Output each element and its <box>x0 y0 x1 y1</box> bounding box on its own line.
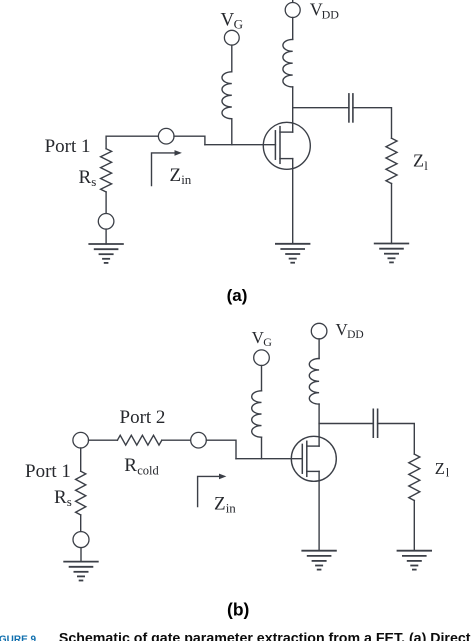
svg-text:Z: Z <box>214 494 226 515</box>
stub above VDD (a) <box>292 0 294 2</box>
terminal circle VG (a) <box>224 30 239 45</box>
figure caption <box>0 631 474 641</box>
ground under source (b) <box>302 551 336 570</box>
label Zl (b) <box>435 459 450 480</box>
source wire to ground (b) <box>318 471 320 550</box>
wire drain node to capacitor (b) <box>319 423 373 425</box>
wire circle to ground (a) <box>105 229 107 244</box>
svg-text:R: R <box>124 455 137 476</box>
label Zl (a) <box>413 151 428 174</box>
wire VG circle to inductor (a) <box>231 45 233 72</box>
terminal circle VG (b) <box>254 350 270 366</box>
svg-text:Port 2: Port 2 <box>120 407 166 428</box>
label VG (a) <box>221 9 243 31</box>
Zin arrow (b) <box>198 476 220 506</box>
node circle port2 (b) <box>191 432 207 448</box>
node circle port1 (b) <box>73 432 89 448</box>
label Port 1 (b) <box>25 461 71 482</box>
wire Rs to terminal circle (a) <box>105 192 107 214</box>
label Rcold (b) <box>124 455 159 478</box>
label VDD (a) <box>310 0 340 21</box>
svg-text:s: s <box>67 494 72 509</box>
svg-text:R: R <box>79 167 92 188</box>
wire node to Rcold (b) <box>89 439 118 441</box>
capacitor C1 (b) <box>373 409 377 437</box>
terminal circle port1 bottom (b) <box>73 532 89 548</box>
svg-text:l: l <box>424 158 428 173</box>
capacitor C1 (a) <box>349 94 353 122</box>
svg-text:Z: Z <box>435 459 445 478</box>
ground under Zl (b) <box>398 551 432 570</box>
label VDD (b) <box>336 320 364 341</box>
wire capacitor to Zl corner (a) <box>353 108 392 139</box>
ground under source (a) <box>276 244 310 263</box>
svg-text:Port 1: Port 1 <box>25 461 71 482</box>
terminal circle port1 bottom (a) <box>98 214 114 230</box>
wire node to Rs (b) <box>80 448 82 471</box>
Zin arrow (a) <box>152 153 176 186</box>
resistor Zl (b) <box>409 454 420 500</box>
transistor M1 channel bar (a) <box>279 127 281 164</box>
label Zin (a) <box>170 165 192 187</box>
svg-text:G: G <box>263 335 272 349</box>
label VG (b) <box>252 328 273 349</box>
svg-text:R: R <box>54 487 67 508</box>
svg-text:s: s <box>91 174 96 189</box>
wire Rcold to node 2 (b) <box>162 439 191 441</box>
wire node2 to jog (b) <box>206 440 236 459</box>
gate wire (b) <box>236 458 302 460</box>
label Rs (b) <box>54 487 72 509</box>
node circle port 1 (a) <box>158 128 174 144</box>
resistor Zl (a) <box>386 138 397 183</box>
inductor LG (b) <box>252 391 262 437</box>
transistor M1 circle (b) <box>291 436 336 481</box>
label Port 1 (a) <box>45 136 91 157</box>
wire LG to gate line (b) <box>261 437 263 459</box>
resistor Rs (a) <box>101 149 112 192</box>
transistor M1 gate bar (b) <box>301 444 303 473</box>
wire Zl to ground (a) <box>391 184 393 244</box>
ground under Rs (a) <box>89 244 123 263</box>
wire Zl to ground (b) <box>413 501 415 551</box>
svg-text:Z: Z <box>170 165 182 186</box>
wire circle to ground (b) <box>80 548 82 562</box>
source wire to ground (a) <box>292 159 294 244</box>
wire VDD circle to inductor (b) <box>318 339 320 359</box>
label (b) <box>227 599 249 619</box>
svg-text:Schematic of gate parameter ex: Schematic of gate parameter extraction f… <box>59 631 474 641</box>
resistor Rcold (b) <box>117 435 161 445</box>
svg-text:DD: DD <box>347 329 364 341</box>
inductor LD (a) <box>283 39 293 87</box>
svg-text:(b): (b) <box>227 599 249 619</box>
svg-text:FIGURE 9.: FIGURE 9. <box>0 635 39 641</box>
transistor M1 source tap (b) <box>307 470 319 472</box>
wire VDD circle to inductor (a) <box>292 18 294 40</box>
label Zin (b) <box>214 494 236 516</box>
ground under Rs (b) <box>64 562 98 581</box>
transistor M1 source tap (a) <box>280 158 293 160</box>
svg-text:(a): (a) <box>227 286 248 305</box>
svg-text:G: G <box>234 16 243 31</box>
inductor LG (a) <box>222 72 232 119</box>
transistor M1 channel bar (b) <box>306 441 308 476</box>
inductor LD (b) <box>309 359 319 405</box>
svg-text:Z: Z <box>413 151 424 171</box>
wire LG to gate line (a) <box>231 119 233 145</box>
svg-text:DD: DD <box>322 7 340 21</box>
resistor Rs (b) <box>76 471 86 515</box>
terminal circle VDD (b) <box>311 323 327 339</box>
transistor M1 gate bar (a) <box>274 131 276 159</box>
wire drain node to capacitor (a) <box>293 107 349 109</box>
svg-text:l: l <box>446 466 450 480</box>
wire Rs to terminal circle (b) <box>80 515 82 532</box>
label Port 2 (b) <box>120 407 166 428</box>
transistor M1 drain tap (b) <box>307 445 319 447</box>
label Rs (a) <box>79 167 97 189</box>
transistor M1 drain tap (a) <box>280 131 293 133</box>
svg-text:cold: cold <box>137 464 159 478</box>
wire Rs top corner to node (a) <box>106 136 158 149</box>
wire LD to drain tap, through drain node (b) <box>318 404 320 446</box>
svg-text:in: in <box>226 501 237 516</box>
wire LD to drain tap, through drain node (a) <box>292 87 294 132</box>
transistor M1 circle (a) <box>263 122 310 169</box>
label (a) <box>227 286 248 305</box>
svg-text:Port 1: Port 1 <box>45 136 91 157</box>
svg-text:in: in <box>181 172 192 187</box>
ground under Zl (a) <box>375 244 409 263</box>
gate wire (a) <box>205 144 276 146</box>
wire VG circle to inductor (b) <box>261 366 263 391</box>
wire capacitor to Zl corner (b) <box>378 424 415 455</box>
terminal circle VDD (a) <box>285 3 300 18</box>
wire node to jog (a) <box>174 136 205 145</box>
svg-text:V: V <box>221 9 235 30</box>
